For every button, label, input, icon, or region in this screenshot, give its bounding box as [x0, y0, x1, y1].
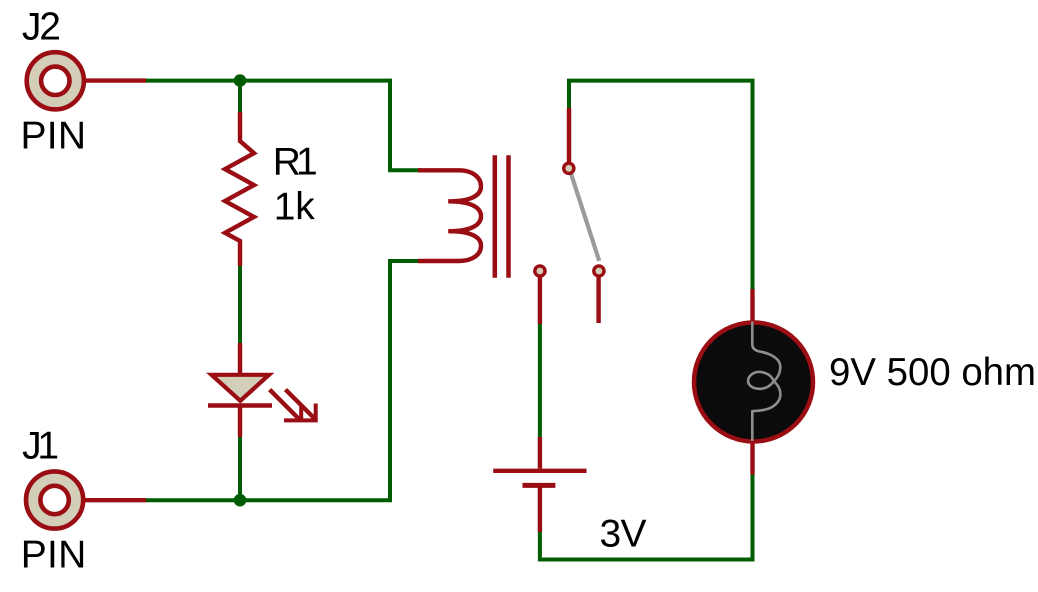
left contact to battery [535, 266, 545, 276]
LED D1 [208, 343, 318, 437]
pole contact [564, 163, 574, 173]
LED arrow 2 [286, 390, 315, 419]
battery BT1 [493, 437, 586, 532]
svg-text:1k: 1k [274, 186, 316, 229]
wire contact to battery top [538, 323, 542, 439]
throw contact (open stub) [594, 266, 604, 276]
svg-text:J2: J2 [22, 6, 61, 49]
LED arrow barbs horizontal [284, 418, 318, 422]
relay coil [418, 170, 481, 261]
junction node top [234, 74, 247, 87]
wire J2 to junction to top-right corner [145, 79, 390, 83]
relay switch [535, 108, 604, 324]
svg-text:J1: J1 [22, 424, 59, 467]
connector J2 [27, 52, 146, 109]
svg-text:3V: 3V [600, 513, 647, 556]
wire resistor to LED [238, 265, 242, 345]
wire resistor top stub [238, 81, 242, 114]
pole lead [567, 108, 571, 162]
svg-text:PIN: PIN [21, 114, 87, 157]
junction node bottom [234, 494, 247, 507]
svg-text:R1: R1 [273, 141, 318, 184]
lamp 9V 500 ohm [694, 289, 813, 475]
wire battery bottom to lamp bottom [540, 473, 753, 560]
resistor R1 [225, 112, 254, 266]
connector J1 [26, 471, 146, 528]
wire vertical down to coil top [390, 79, 420, 171]
wire coil bottom to J1 row [145, 261, 420, 500]
wire switch pole to lamp top [569, 81, 753, 291]
relay core [495, 155, 509, 277]
svg-text:9V 500 ohm: 9V 500 ohm [829, 351, 1036, 394]
lamp filament [748, 322, 780, 442]
LED arrow 1 [270, 390, 300, 420]
svg-text:PIN: PIN [21, 533, 87, 576]
switch blade [571, 174, 599, 261]
wire LED to junction [238, 435, 242, 500]
